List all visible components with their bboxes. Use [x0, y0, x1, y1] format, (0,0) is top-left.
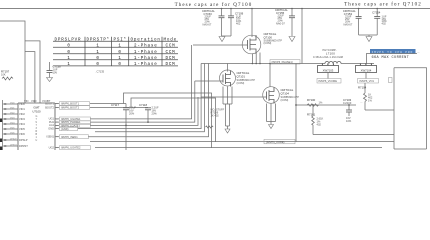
svg-text:0: 0: [67, 51, 70, 55]
svg-text:0.36UH-20A-1.1M-OHM: 0.36UH-20A-1.1M-OHM: [313, 55, 343, 59]
svg-text:R7104: R7104: [358, 86, 367, 90]
svg-text:1-Phase: 1-Phase: [134, 56, 158, 61]
svg-text:1: 1: [118, 45, 121, 49]
svg-text:. C7135: . C7135: [95, 70, 105, 74]
svg-text:Mode: Mode: [164, 38, 177, 43]
svg-text:Q7104: Q7104: [281, 92, 290, 96]
svg-text:C7118: C7118: [139, 103, 147, 107]
svg-text:BT: BT: [47, 99, 51, 103]
svg-text:(COM): (COM): [281, 98, 289, 102]
svg-text:(GND): (GND): [61, 127, 69, 131]
svg-text:R7100: R7100: [307, 98, 316, 102]
svg-text:CCM: CCM: [165, 45, 175, 49]
svg-text:BOOT2: BOOT2: [45, 105, 54, 109]
svg-text:0.22UF: 0.22UF: [343, 101, 352, 105]
svg-text:1: 1: [67, 57, 70, 61]
svg-text:1: 1: [96, 45, 99, 49]
svg-text:IMVP6_VCORE: IMVP6_VCORE: [319, 79, 338, 83]
svg-text:Q7101: Q7101: [237, 75, 246, 79]
svg-text:402: 402: [236, 22, 241, 26]
svg-text:(IMVP6_PHASE1): (IMVP6_PHASE1): [272, 60, 293, 64]
svg-text:IMVP6_PHASE1: IMVP6_PHASE1: [61, 120, 81, 124]
svg-text:402: 402: [317, 123, 322, 127]
svg-text:IMVP6_VO1: IMVP6_VO1: [360, 79, 375, 83]
svg-text:Operation: Operation: [131, 38, 161, 43]
svg-text:1: 1: [96, 51, 99, 55]
svg-text:VDD: VDD: [31, 99, 37, 103]
svg-text:1: 1: [67, 63, 70, 67]
svg-text:1-Phase: 1-Phase: [134, 50, 158, 55]
svg-text:C7117: C7117: [111, 103, 119, 107]
svg-text:IMVP6_ISEN1: IMVP6_ISEN1: [61, 135, 78, 139]
svg-text:IMVP6_BOOT2: IMVP6_BOOT2: [61, 106, 80, 110]
svg-text:20%: 20%: [129, 112, 135, 116]
svg-text:VID1: VID1: [19, 107, 25, 111]
svg-text:66A MAX CURRENT: 66A MAX CURRENT: [372, 56, 410, 60]
svg-text:XW7104: XW7104: [361, 68, 372, 72]
svg-text:(IMVP6_CORE): (IMVP6_CORE): [266, 140, 285, 144]
svg-text:DPRST: DPRST: [19, 144, 28, 148]
svg-text:DCM: DCM: [165, 63, 175, 67]
svg-text:C7154: C7154: [372, 11, 381, 15]
svg-text:10V: 10V: [53, 71, 58, 75]
svg-text:PSI*: PSI*: [114, 38, 127, 43]
svg-text:These caps are for Q7102: These caps are for Q7102: [344, 3, 422, 8]
svg-text:1: 1: [118, 57, 121, 61]
svg-text:(COM): (COM): [237, 81, 245, 85]
svg-text:NA0-07: NA0-07: [203, 22, 212, 26]
svg-text:VID2: VID2: [19, 112, 25, 116]
svg-text:20%: 20%: [152, 112, 158, 116]
svg-text:IMVP6_UGATE2: IMVP6_UGATE2: [61, 146, 81, 150]
svg-text:VID3: VID3: [19, 117, 25, 121]
svg-text:CCM: CCM: [165, 51, 175, 55]
svg-text:NA0-07: NA0-07: [276, 21, 285, 25]
svg-text:GND: GND: [48, 126, 54, 130]
svg-text:VID4: VID4: [19, 122, 25, 126]
svg-text:NA0-07: NA0-07: [344, 22, 353, 26]
svg-text:U7100: U7100: [32, 110, 41, 114]
svg-text:0: 0: [67, 45, 70, 49]
svg-text:...: ...: [360, 100, 363, 104]
svg-text:DPRSLPVR: DPRSLPVR: [55, 39, 82, 43]
svg-text:(COM): (COM): [264, 41, 272, 45]
svg-text:1-Phase: 1-Phase: [134, 62, 158, 67]
svg-text:XW7103: XW7103: [323, 68, 334, 72]
svg-text:VID5: VID5: [19, 127, 25, 131]
svg-text:IMVP6_BOOT1: IMVP6_BOOT1: [61, 102, 80, 106]
svg-text:0: 0: [118, 63, 121, 67]
svg-text:DPSLP: DPSLP: [19, 138, 28, 142]
svg-text:402: 402: [382, 22, 387, 26]
svg-text:0: 0: [96, 57, 99, 61]
svg-text:ISEN1: ISEN1: [47, 135, 55, 139]
svg-text:U: U: [36, 139, 38, 142]
svg-text:DPSLP: DPSLP: [10, 138, 17, 140]
svg-text:1K 402: 1K 402: [211, 114, 220, 118]
svg-text:2-Phase: 2-Phase: [134, 44, 158, 49]
svg-text:0: 0: [96, 63, 99, 67]
svg-text:DCM: DCM: [165, 57, 175, 61]
svg-text:10%: 10%: [346, 119, 352, 123]
svg-text:UG2: UG2: [49, 145, 55, 149]
svg-text:DPRSTP*: DPRSTP*: [87, 38, 111, 43]
svg-text:10K: 10K: [1, 73, 6, 77]
svg-text:R7101: R7101: [307, 112, 316, 116]
svg-text:...: ...: [417, 50, 420, 54]
svg-text:DPRST: DPRST: [10, 144, 18, 146]
svg-text:L7100: L7100: [326, 51, 335, 55]
svg-text:VIN: VIN: [24, 99, 28, 103]
svg-text:0: 0: [118, 51, 121, 55]
svg-text:VID6: VID6: [19, 132, 25, 136]
svg-text:These caps are for Q7100: These caps are for Q7100: [175, 3, 253, 8]
